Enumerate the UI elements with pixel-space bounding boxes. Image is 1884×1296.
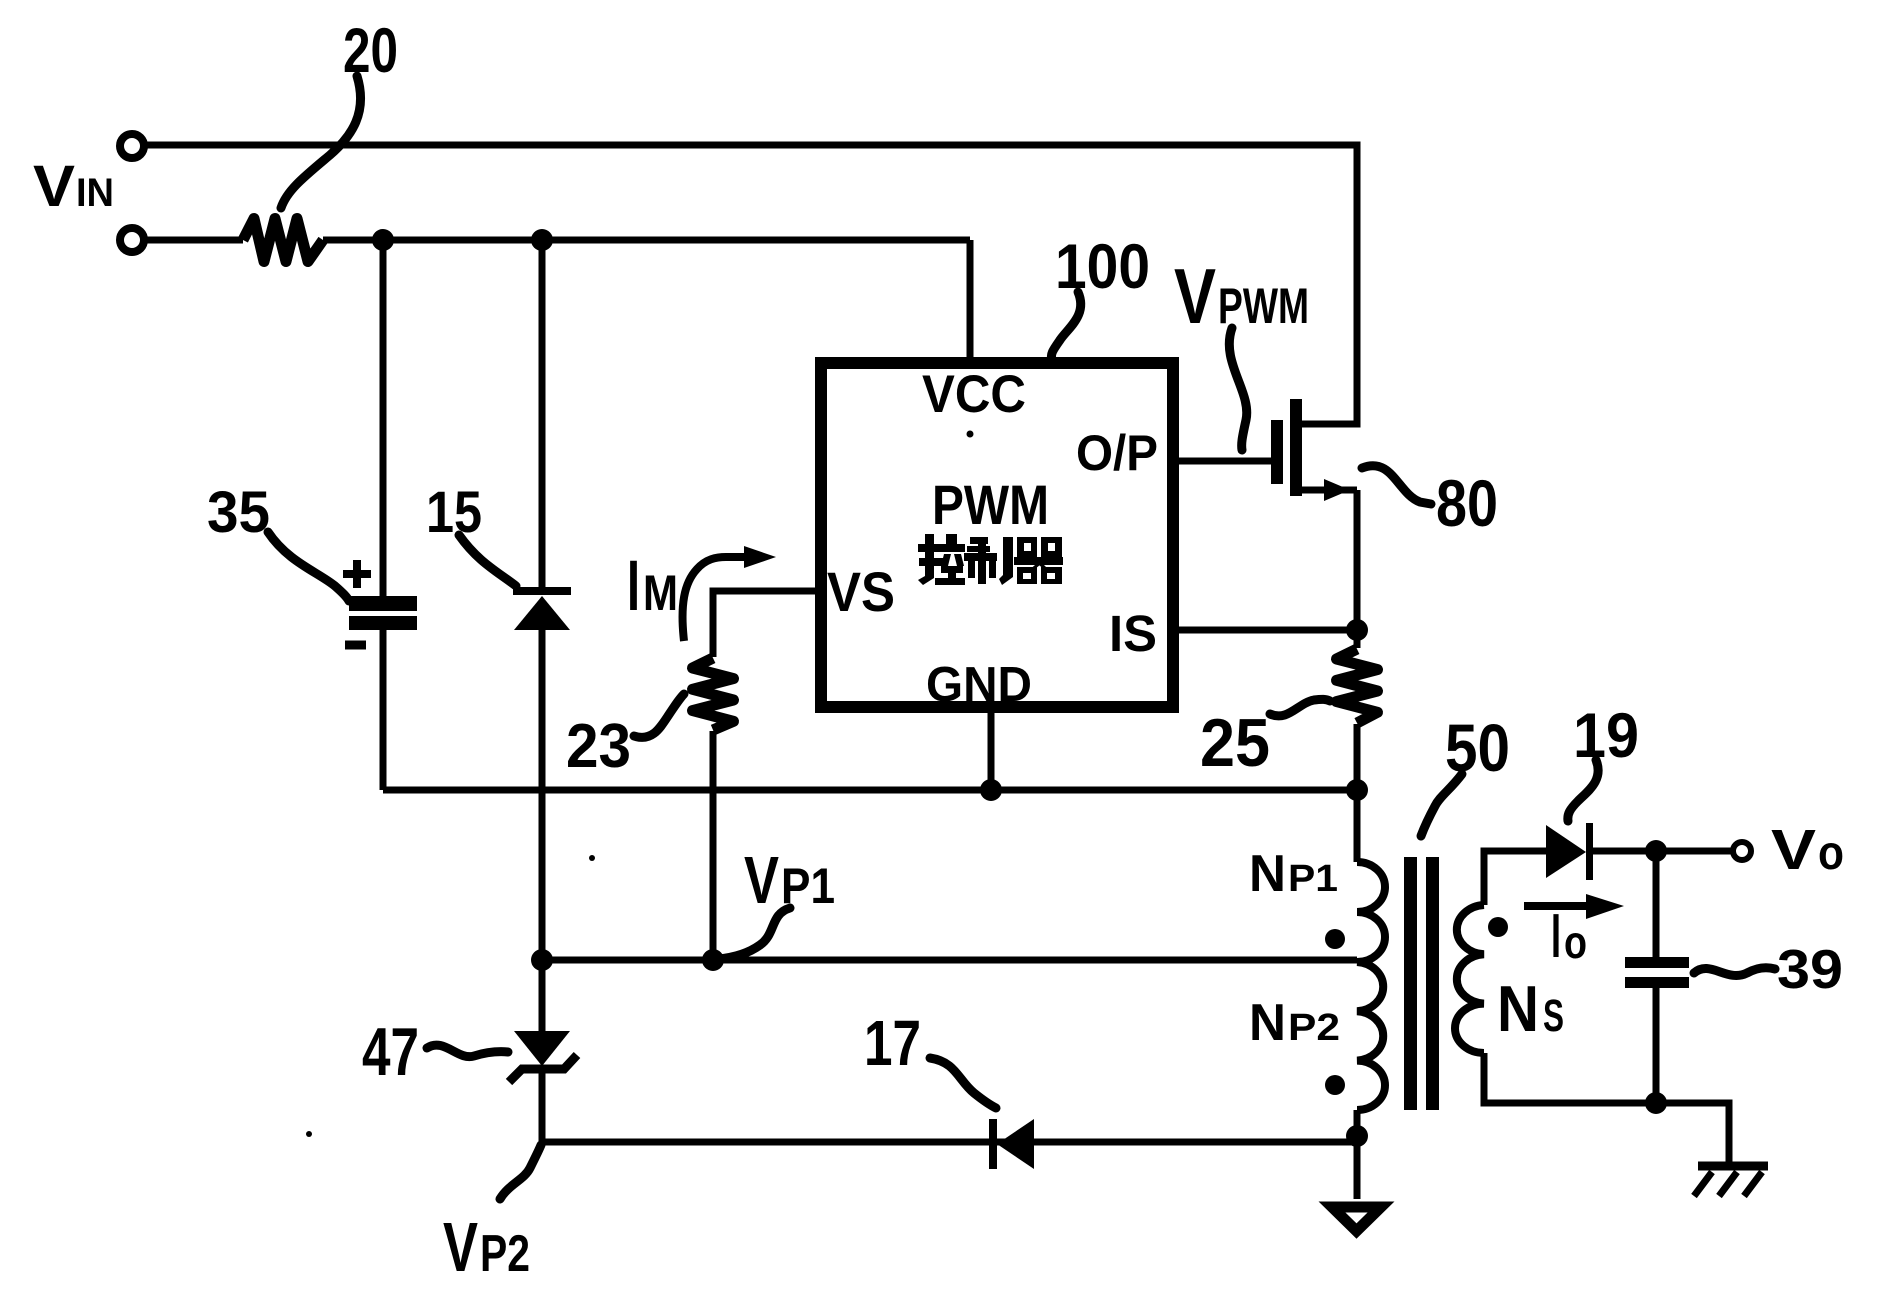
svg-text:O/P: O/P xyxy=(1076,425,1158,481)
svg-text:P2: P2 xyxy=(480,1225,530,1283)
svg-text:PWM: PWM xyxy=(932,473,1049,536)
svg-text:V: V xyxy=(1771,818,1816,882)
svg-text:I: I xyxy=(1551,902,1561,971)
svg-text:N: N xyxy=(1249,994,1286,1052)
svg-text:IN: IN xyxy=(76,171,114,215)
svg-text:VCC: VCC xyxy=(922,365,1026,424)
svg-text:V: V xyxy=(33,154,75,219)
svg-text:39: 39 xyxy=(1777,938,1843,1000)
svg-text:V: V xyxy=(744,843,779,918)
svg-text:25: 25 xyxy=(1200,705,1270,781)
svg-text:100: 100 xyxy=(1055,232,1150,302)
svg-text:o: o xyxy=(1564,916,1587,968)
svg-text:N: N xyxy=(1497,972,1539,1045)
svg-text:50: 50 xyxy=(1445,711,1510,786)
svg-text:VS: VS xyxy=(827,560,895,623)
svg-text:GND: GND xyxy=(926,658,1032,712)
svg-text:M: M xyxy=(643,565,678,621)
svg-text:35: 35 xyxy=(207,480,270,545)
svg-text:o: o xyxy=(1818,827,1844,880)
svg-text:V: V xyxy=(443,1208,478,1286)
svg-text:P2: P2 xyxy=(1288,1007,1340,1049)
svg-text:P1: P1 xyxy=(781,858,835,914)
svg-text:15: 15 xyxy=(426,480,482,545)
svg-text:P1: P1 xyxy=(1288,858,1338,900)
svg-text:IS: IS xyxy=(1109,605,1157,662)
svg-text:23: 23 xyxy=(566,712,631,781)
svg-text:19: 19 xyxy=(1573,701,1639,771)
svg-text:20: 20 xyxy=(343,16,398,86)
svg-text:80: 80 xyxy=(1436,466,1498,540)
svg-text:V: V xyxy=(1174,252,1216,340)
svg-text:S: S xyxy=(1543,990,1564,1041)
svg-text:47: 47 xyxy=(362,1014,419,1090)
svg-text:N: N xyxy=(1249,845,1286,903)
svg-text:PWM: PWM xyxy=(1218,278,1309,334)
svg-text:17: 17 xyxy=(864,1007,921,1079)
svg-text:I: I xyxy=(627,547,640,626)
